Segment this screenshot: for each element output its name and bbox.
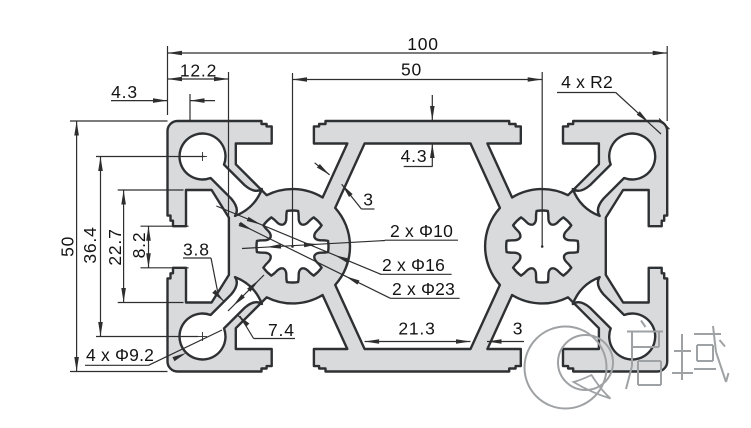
svg-text:21.3: 21.3 — [398, 319, 435, 339]
watermark logo outer ring — [525, 327, 607, 409]
dim 3 bottom leg — [487, 341, 524, 343]
svg-text:4 x R2: 4 x R2 — [561, 72, 613, 92]
watermark character yu — [681, 334, 683, 380]
svg-text:36.4: 36.4 — [80, 226, 100, 263]
svg-text:12.2: 12.2 — [180, 61, 217, 81]
svg-text:2 x Φ16: 2 x Φ16 — [382, 255, 445, 275]
watermark logo beak swoosh — [574, 375, 611, 399]
dim 12.2 — [228, 72, 230, 218]
svg-text:2 x Φ10: 2 x Φ10 — [390, 221, 453, 241]
profile body: 100x50 aluminium extrusion cross-section — [168, 121, 668, 372]
svg-text:22.7: 22.7 — [105, 228, 125, 265]
svg-text:4.3: 4.3 — [401, 146, 428, 166]
svg-text:3.8: 3.8 — [183, 240, 210, 260]
svg-text:100: 100 — [407, 34, 439, 54]
center dots gears — [291, 245, 294, 248]
dim 50 left — [70, 120, 168, 122]
svg-text:50: 50 — [58, 236, 78, 257]
svg-text:4 x Φ9.2: 4 x Φ9.2 — [86, 345, 154, 365]
svg-text:50: 50 — [401, 60, 422, 80]
svg-text:3: 3 — [513, 319, 524, 339]
dim 21.3 — [365, 341, 471, 343]
svg-text:2 x Φ23: 2 x Φ23 — [392, 279, 455, 299]
svg-text:7.4: 7.4 — [268, 320, 295, 340]
svg-text:8.2: 8.2 — [129, 232, 149, 259]
watermark character qi — [641, 321, 646, 328]
watermark logo inner circle — [558, 335, 613, 390]
dim 4.3 top-left — [189, 94, 191, 121]
dim 50 top — [292, 73, 294, 247]
dim 36.4 — [96, 156, 205, 158]
dim 100 top — [167, 46, 169, 115]
dim 22.7 — [118, 189, 184, 191]
svg-text:3: 3 — [363, 190, 374, 210]
dim 8.2 — [141, 225, 189, 227]
center marks corner holes — [198, 156, 207, 158]
dim 4.3 plate — [431, 95, 433, 121]
svg-text:4.3: 4.3 — [111, 82, 138, 102]
